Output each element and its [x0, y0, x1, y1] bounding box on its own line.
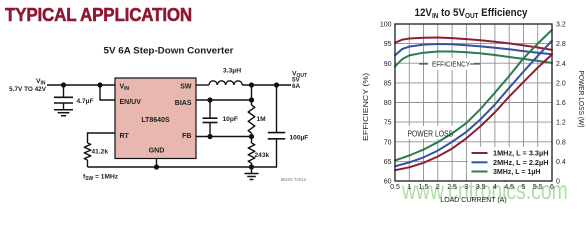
- svg-text:0.5: 0.5: [390, 184, 400, 191]
- svg-text:41.2k: 41.2k: [92, 149, 109, 156]
- svg-text:2.0: 2.0: [556, 80, 566, 87]
- svg-text:FB: FB: [182, 133, 191, 140]
- svg-text:1.2: 1.2: [556, 120, 566, 127]
- svg-text:3.3µH: 3.3µH: [223, 68, 241, 75]
- svg-text:0.8: 0.8: [556, 139, 566, 146]
- svg-text:SW: SW: [180, 83, 192, 90]
- svg-text:1M: 1M: [257, 116, 267, 123]
- svg-text:EN/UV: EN/UV: [120, 99, 142, 106]
- svg-text:POWER LOSS (W): POWER LOSS (W): [577, 71, 584, 128]
- svg-text:100µF: 100µF: [290, 135, 309, 142]
- svg-text:10pF: 10pF: [223, 116, 238, 123]
- svg-text:5.7V TO 42V: 5.7V TO 42V: [9, 86, 47, 93]
- svg-text:70: 70: [384, 139, 392, 146]
- svg-text:EFFICIENCY (%): EFFICIENCY (%): [363, 73, 370, 141]
- svg-text:243k: 243k: [255, 152, 270, 159]
- svg-text:80: 80: [384, 100, 392, 107]
- svg-text:RT: RT: [120, 133, 130, 140]
- svg-text:65: 65: [384, 159, 392, 166]
- svg-text:3.2: 3.2: [556, 22, 566, 29]
- svg-text:90: 90: [384, 61, 392, 68]
- svg-text:POWER LOSS: POWER LOSS: [408, 130, 454, 139]
- svg-text:8640S TA01a: 8640S TA01a: [281, 177, 307, 182]
- svg-text:4.7µF: 4.7µF: [77, 98, 94, 105]
- svg-text:100: 100: [380, 22, 392, 29]
- svg-text:EFFICIENCY: EFFICIENCY: [432, 61, 470, 68]
- svg-text:5V 6A Step-Down Converter: 5V 6A Step-Down Converter: [104, 46, 234, 57]
- svg-text:2.8: 2.8: [556, 41, 566, 48]
- svg-text:fSW = 1MHz: fSW = 1MHz: [83, 174, 119, 183]
- svg-text:1.6: 1.6: [556, 100, 566, 107]
- svg-text:6A: 6A: [292, 83, 301, 90]
- svg-text:75: 75: [384, 120, 392, 127]
- svg-text:BIAS: BIAS: [175, 100, 192, 107]
- svg-text:12VIN to 5VOUT Efficiency: 12VIN to 5VOUT Efficiency: [415, 7, 528, 20]
- svg-text:1MHz, L = 3.3µH: 1MHz, L = 3.3µH: [493, 150, 549, 158]
- svg-text:85: 85: [384, 80, 392, 87]
- svg-text:95: 95: [384, 41, 392, 48]
- svg-text:2MHz, L = 2.2µH: 2MHz, L = 2.2µH: [493, 159, 549, 167]
- svg-text:2.4: 2.4: [556, 61, 566, 68]
- svg-text:GND: GND: [149, 147, 165, 154]
- svg-text:LT8640S: LT8640S: [141, 117, 170, 124]
- svg-text:0.4: 0.4: [556, 159, 566, 166]
